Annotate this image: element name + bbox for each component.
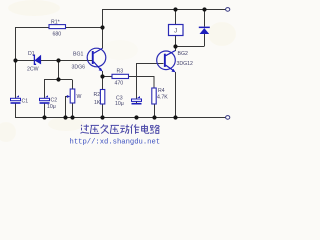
capacitor C2 — [40, 95, 50, 103]
svg-text:680: 680 — [53, 31, 62, 37]
node relay bottom / BG2 collector — [173, 44, 177, 48]
wire C2 lower lead — [44, 104, 46, 117]
node BG1 emitter / R3 / R2 — [100, 74, 104, 78]
wire R4 lower lead — [154, 104, 156, 117]
wire C3 riser to BG2 base corner — [137, 64, 164, 105]
char 作 — [131, 124, 140, 133]
svg-text:http//:xd.shangdu.net: http//:xd.shangdu.net — [70, 138, 161, 146]
resistor R2 — [100, 90, 104, 105]
wire R3 to R4 corner — [129, 77, 155, 89]
node branch split — [56, 77, 60, 81]
wire R2 lower lead — [102, 104, 104, 117]
node top rail / D2 — [202, 7, 206, 11]
capacitor C3 — [132, 96, 142, 105]
terminal top right — [226, 8, 230, 12]
svg-text:3DG6: 3DG6 — [72, 65, 86, 71]
wire relay bottom to D2 — [176, 46, 205, 48]
node bottom rail / R2 — [100, 115, 104, 119]
wire W wiper stub — [66, 97, 68, 118]
terminal bottom right — [226, 116, 230, 120]
wire D1 to BG1 base — [16, 60, 93, 62]
zener diode D1 — [33, 55, 41, 64]
wire riser from R1 line to top rail — [102, 10, 104, 28]
wire C2 upper lead — [44, 80, 46, 99]
node bottom rail / wiper — [63, 115, 67, 119]
svg-text:470: 470 — [115, 80, 124, 86]
resistor R1 — [49, 25, 66, 29]
node bottom rail / R4 — [152, 115, 156, 119]
relay J box — [169, 25, 184, 36]
wire R1 horizontal line — [15, 27, 102, 29]
caption Chinese: 过压欠压动作电路 (hand drawn strokes) — [80, 124, 159, 133]
wire emitter node to R3 — [103, 76, 113, 78]
char 压 (2) — [110, 125, 119, 133]
transistor BG1 — [87, 48, 106, 71]
resistor R3 — [112, 74, 129, 78]
svg-text:R1*: R1* — [51, 20, 60, 26]
wire BG1 emitter drop to node — [102, 71, 104, 90]
char 路 — [150, 125, 159, 134]
capacitor C1 — [11, 95, 21, 103]
wire bottom rail — [15, 117, 226, 119]
char 欠 — [101, 124, 109, 133]
svg-text:R2: R2 — [94, 92, 101, 98]
svg-text:BG2: BG2 — [178, 51, 188, 57]
wire relay J lower lead — [175, 36, 177, 47]
node bottom rail / W — [70, 115, 74, 119]
char 过 — [80, 125, 89, 134]
char 电 — [142, 125, 149, 134]
wire D2 lower lead — [204, 34, 206, 47]
svg-text:10μ: 10μ — [47, 104, 56, 110]
wire relay J upper lead — [175, 10, 177, 25]
svg-text:4.7K: 4.7K — [157, 95, 168, 101]
node R1/collector junction — [100, 25, 104, 29]
svg-text:W: W — [77, 94, 82, 100]
svg-text:J: J — [174, 28, 177, 35]
char 压 — [90, 125, 99, 133]
svg-text:R4: R4 — [158, 88, 165, 94]
wire node A drop — [58, 61, 60, 80]
wire C2-W crossbar — [44, 79, 72, 81]
svg-text:C1: C1 — [22, 99, 29, 105]
wire W upper lead — [72, 80, 74, 90]
wire BG2 emitter drop — [175, 72, 177, 117]
node bottom rail / C3 — [134, 115, 138, 119]
node bottom rail / BG2 emitter — [173, 115, 177, 119]
svg-text:R3: R3 — [117, 69, 124, 75]
potentiometer W — [67, 89, 75, 103]
wire top rail — [102, 9, 226, 11]
transistor BG2 — [157, 51, 176, 73]
svg-text:BG1: BG1 — [73, 51, 83, 57]
svg-text:2CW: 2CW — [27, 67, 39, 73]
diode D2 flyback — [199, 27, 210, 34]
resistor R4 — [152, 88, 156, 104]
wire left rail upper segment — [15, 28, 17, 99]
svg-text:D1: D1 — [28, 51, 35, 57]
char 动 — [120, 125, 129, 134]
wire BG1 collector riser — [102, 28, 104, 49]
node bottom rail / C2 — [42, 115, 46, 119]
svg-text:10μ: 10μ — [115, 101, 124, 107]
wire BG2 collector riser — [175, 47, 177, 52]
node A: D1 / base / branch — [56, 58, 60, 62]
svg-text:3DG12: 3DG12 — [177, 61, 194, 67]
wire D2 upper lead — [204, 10, 206, 27]
svg-text:1K: 1K — [94, 100, 101, 106]
node top rail / relay — [173, 7, 177, 11]
wire left rail lower segment — [15, 104, 17, 117]
node left rail / D1 — [13, 58, 17, 62]
wire W lower lead — [72, 103, 74, 117]
svg-text:C2: C2 — [51, 98, 58, 104]
